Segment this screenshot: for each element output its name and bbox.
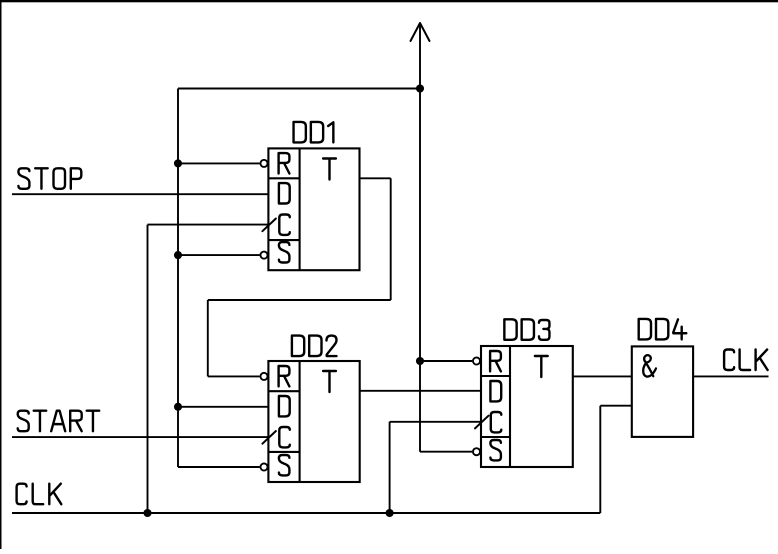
flip-flop DD2 outline	[268, 361, 359, 482]
node DD1 R junction	[174, 159, 182, 167]
DD1 pin column divider	[299, 148, 301, 270]
wire DD3 C horizontal	[390, 421, 481, 423]
node DD1 S junction	[174, 251, 182, 259]
wire DD2 D lead	[178, 406, 268, 408]
DD2 pin C	[279, 427, 290, 447]
DD2 pin R	[279, 366, 290, 386]
border frame top	[0, 0, 778, 2]
bubble DD2 R	[260, 373, 267, 380]
wire START to DD2 C	[12, 436, 268, 438]
wire vertical power rail x420	[419, 23, 421, 452]
DD3 pin D	[490, 381, 501, 401]
bubble DD1 R	[260, 160, 267, 167]
node DD2 D junction	[174, 403, 182, 411]
wire top horizontal y88	[178, 88, 421, 90]
DD1 C/S divider	[268, 239, 299, 241]
wire DD3 C down x390	[389, 422, 391, 513]
label DD1	[294, 122, 306, 142]
label CLK output	[724, 350, 734, 371]
DD2 T label	[323, 371, 336, 392]
node CLK/DD1C junction	[143, 509, 151, 517]
DD3 T label	[535, 356, 548, 377]
wire DD2 Q to DD3 D	[360, 390, 481, 392]
label DD3	[504, 319, 516, 340]
wire DD3 R lead	[420, 360, 472, 362]
DD3 C/S divider	[481, 436, 510, 438]
wire DD1 C horizontal	[148, 224, 269, 226]
border frame left	[0, 0, 2, 549]
wire DD3 Q to DD4	[573, 375, 632, 377]
wire DD1 out down x208	[207, 300, 209, 376]
DD1 pin S	[279, 242, 290, 262]
slash DD1 C dynamic input	[262, 219, 276, 232]
DD1 R/D divider	[268, 177, 299, 179]
flip-flop DD1 outline	[268, 148, 359, 270]
DD3 pin column divider	[509, 346, 511, 467]
bubble DD3 R	[473, 357, 480, 364]
wire DD1 S lead	[178, 254, 260, 256]
DD2 pin S	[279, 455, 290, 475]
label CLK input	[17, 484, 27, 505]
DD1 pin R	[279, 153, 290, 173]
wire DD1 out down x390	[390, 178, 392, 300]
wire DD1 out horizontal y300	[208, 299, 391, 301]
wire vertical rail x147	[147, 225, 149, 513]
label START	[18, 411, 29, 432]
wire DD1 Q out	[360, 177, 391, 179]
DD3 pin R	[490, 351, 501, 371]
node CLK/DD3C junction	[386, 509, 394, 517]
slash DD2 C dynamic input	[262, 431, 276, 444]
wire DD1 R lead	[178, 162, 260, 164]
node junction power/top	[416, 84, 424, 92]
DD1 pin D	[279, 183, 290, 203]
label STOP	[18, 168, 29, 189]
DD2 R/D divider	[268, 390, 299, 392]
bubble DD1 S	[260, 252, 267, 259]
DD1 pin C	[279, 215, 290, 235]
wire DD2 R lead	[208, 375, 260, 377]
label DD2	[292, 336, 304, 357]
wire DD3 S lead	[420, 451, 472, 453]
DD2 C/S divider	[268, 451, 299, 453]
DD1 T label	[323, 159, 336, 180]
wire DD2 S lead	[178, 466, 260, 468]
wire DD4 out	[693, 375, 768, 377]
wire CLK rail bottom	[12, 512, 600, 514]
power rail arrow	[411, 23, 430, 41]
DD3 R/D divider	[481, 375, 510, 377]
wire STOP to DD1 D	[12, 193, 268, 195]
bubble DD2 S	[260, 463, 267, 470]
DD3 pin C	[491, 412, 502, 432]
slash DD3 C dynamic input	[475, 416, 489, 429]
node DD3 R junction	[416, 357, 424, 365]
wire CLK up x600	[599, 406, 601, 513]
label DD4	[639, 319, 651, 340]
flip-flop DD3 outline	[481, 346, 573, 467]
DD2 pin column divider	[299, 361, 301, 482]
DD4 & symbol	[643, 355, 656, 376]
bubble DD3 S	[473, 448, 480, 455]
wire vertical rail x178	[177, 89, 179, 468]
DD3 pin S	[490, 440, 501, 460]
gate DD4 outline	[632, 346, 693, 437]
wire DD4 second input lead	[600, 405, 632, 407]
DD2 pin D	[279, 396, 290, 416]
